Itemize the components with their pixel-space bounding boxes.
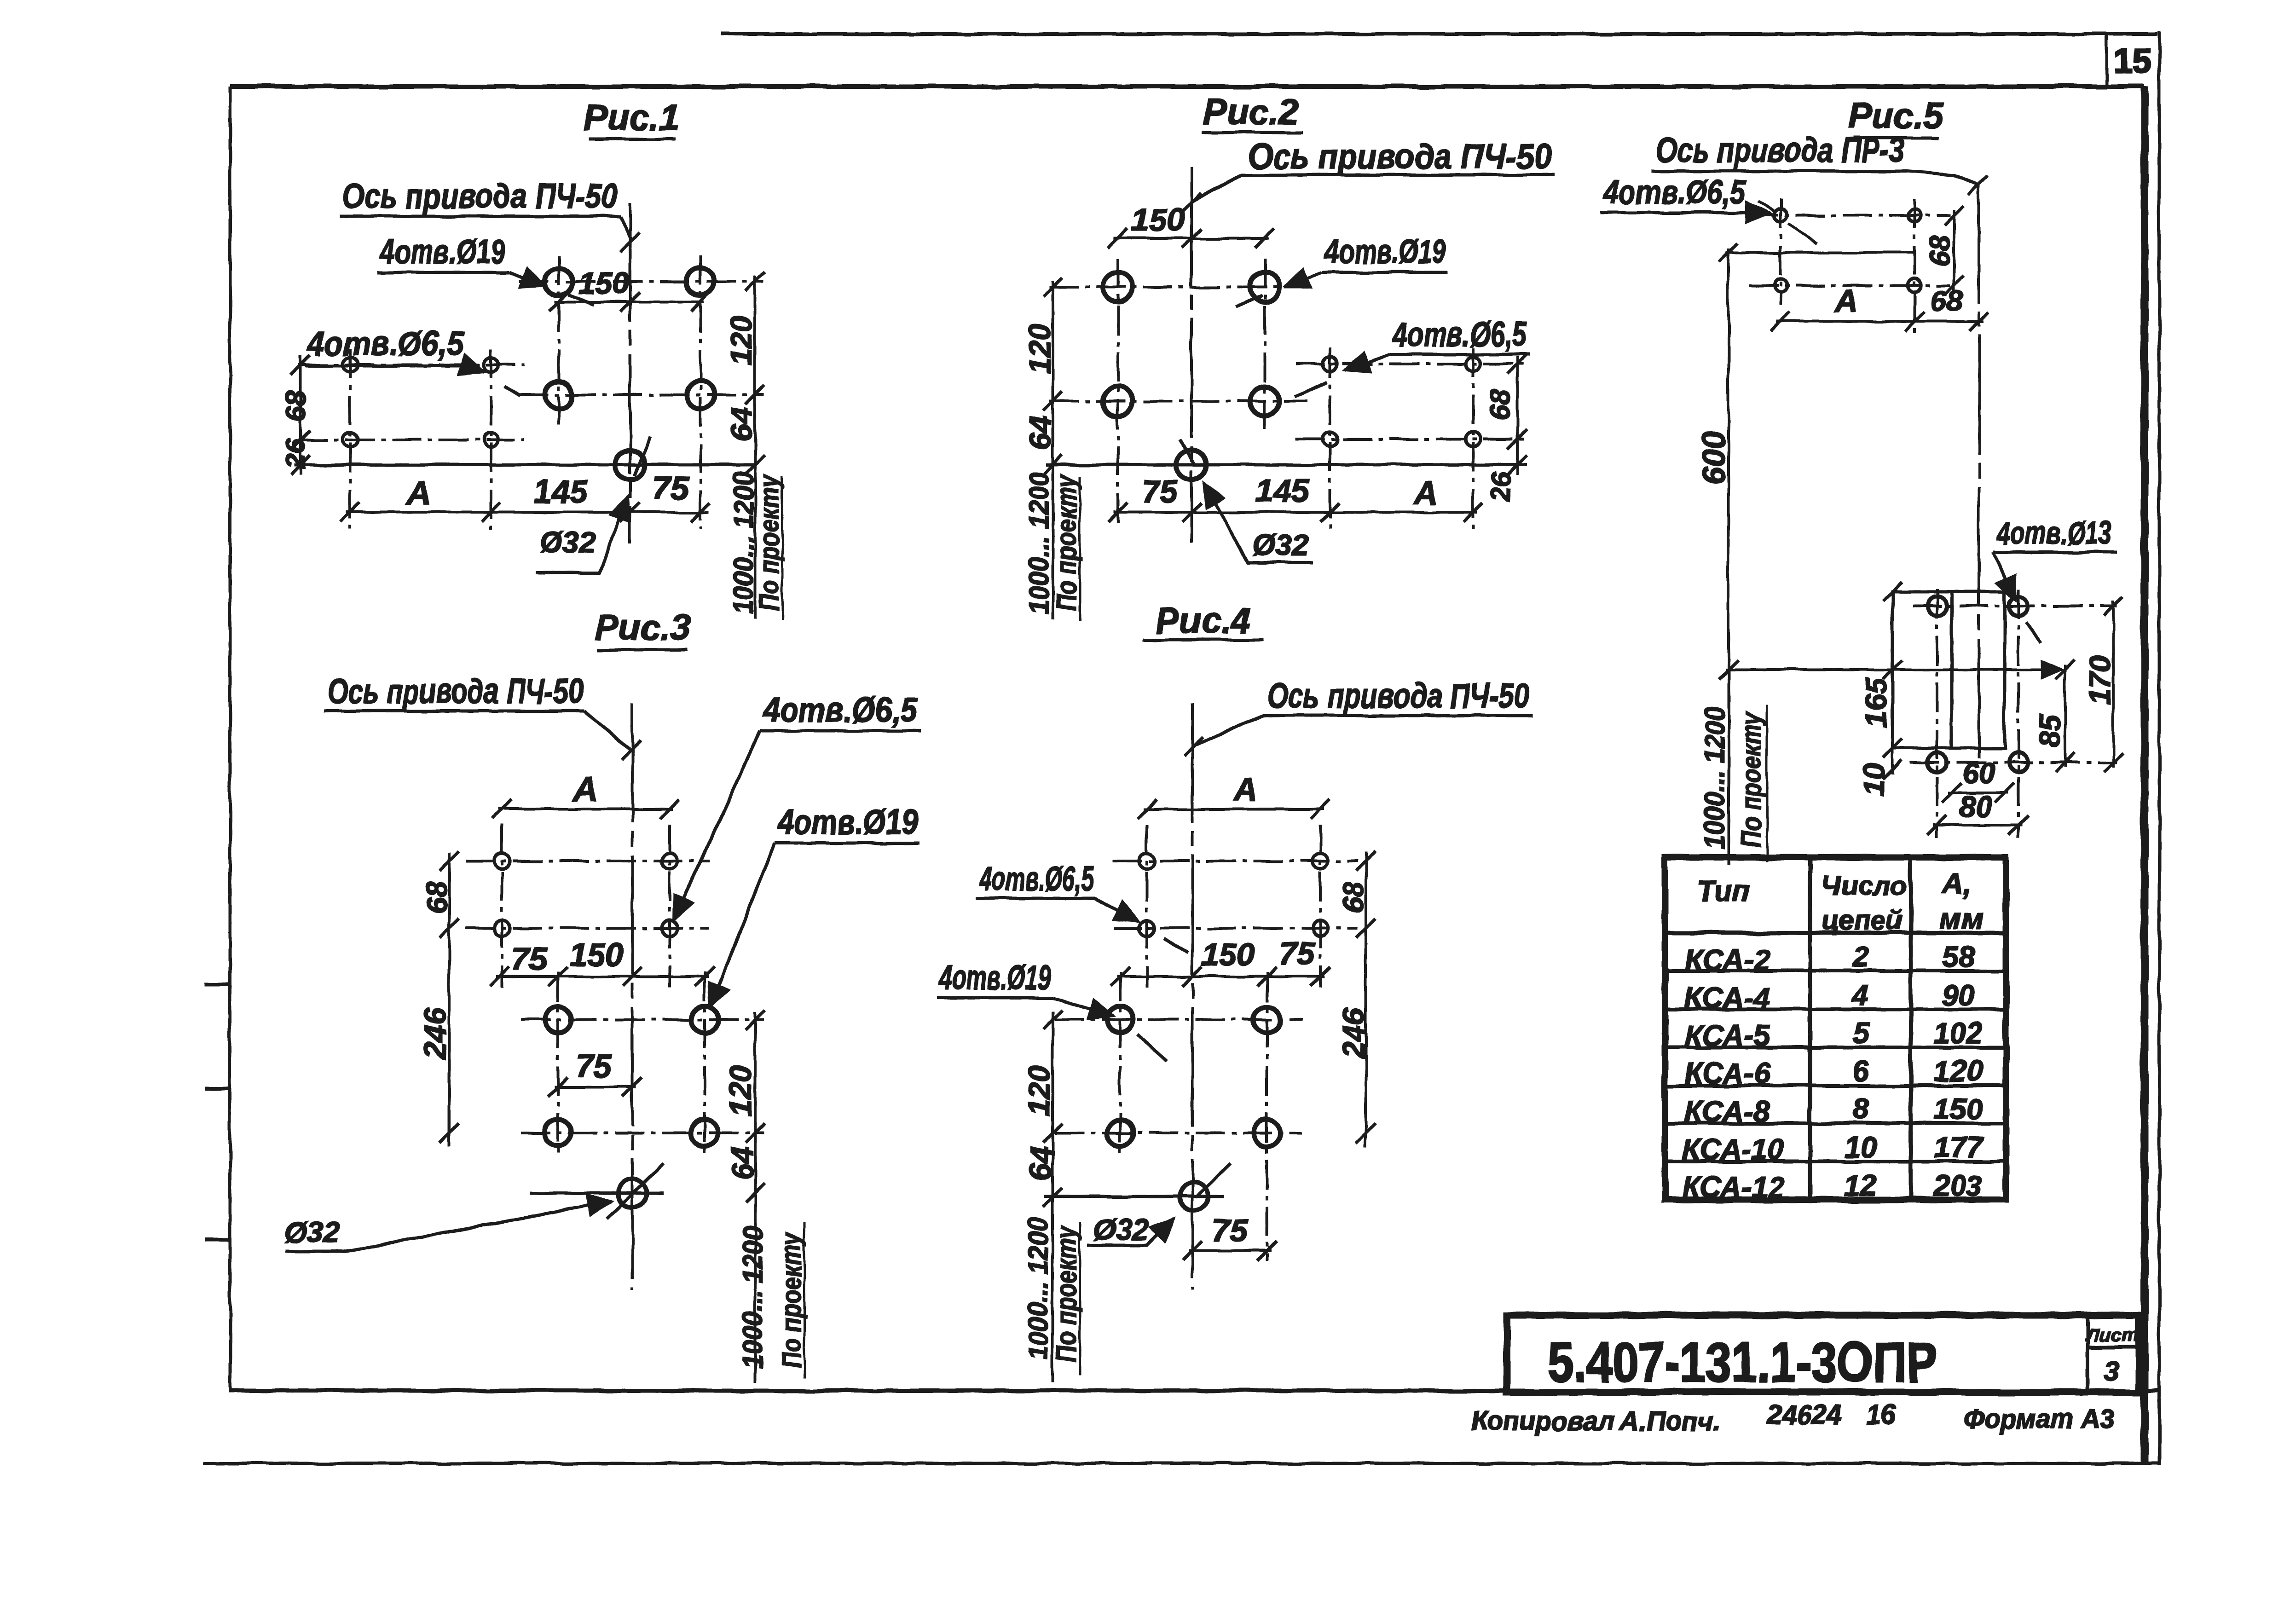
svg-text:По проекту: По проекту	[1051, 1225, 1082, 1362]
svg-text:246: 246	[1336, 1007, 1371, 1059]
svg-text:4отв.Ø6,5: 4отв.Ø6,5	[1602, 174, 1746, 211]
svg-text:Копировал: Копировал	[1471, 1406, 1615, 1436]
svg-text:Ø32: Ø32	[284, 1216, 340, 1249]
svg-text:203: 203	[1933, 1169, 1983, 1202]
svg-text:КСА-12: КСА-12	[1682, 1171, 1784, 1204]
svg-text:150: 150	[1934, 1092, 1983, 1126]
svg-text:КСА-5: КСА-5	[1684, 1019, 1771, 1052]
svg-text:Рис.3: Рис.3	[595, 607, 690, 647]
svg-text:1000... 1200: 1000... 1200	[1023, 1217, 1053, 1360]
svg-text:68: 68	[1924, 235, 1956, 266]
svg-text:Ось привода ПЧ-50: Ось привода ПЧ-50	[341, 177, 618, 216]
svg-text:Рис.1: Рис.1	[584, 97, 679, 138]
svg-text:Рис.2: Рис.2	[1203, 92, 1299, 132]
svg-text:А: А	[572, 771, 597, 808]
svg-text:6: 6	[1852, 1054, 1869, 1087]
svg-text:А: А	[406, 474, 431, 511]
svg-text:102: 102	[1934, 1017, 1983, 1050]
svg-text:75: 75	[1142, 474, 1178, 509]
svg-text:4отв.Ø6,5: 4отв.Ø6,5	[1392, 315, 1527, 353]
svg-text:15: 15	[2114, 42, 2151, 80]
svg-text:5: 5	[1852, 1017, 1869, 1050]
svg-text:68: 68	[1484, 389, 1516, 421]
svg-text:12: 12	[1844, 1169, 1877, 1202]
svg-text:120: 120	[724, 315, 758, 366]
svg-text:А.Попч.: А.Попч.	[1619, 1406, 1722, 1436]
svg-text:75: 75	[653, 470, 689, 506]
svg-text:Ось привода ПЧ-50: Ось привода ПЧ-50	[1248, 137, 1552, 176]
svg-text:68: 68	[421, 881, 453, 913]
svg-text:68: 68	[1338, 881, 1370, 913]
svg-text:8: 8	[1852, 1092, 1869, 1126]
svg-text:150: 150	[1201, 936, 1255, 972]
svg-text:170: 170	[2083, 656, 2117, 705]
svg-text:А,: А,	[1941, 867, 1972, 900]
svg-text:246: 246	[418, 1007, 452, 1059]
svg-text:1000... 1200: 1000... 1200	[737, 1226, 768, 1369]
svg-text:16: 16	[1866, 1400, 1896, 1430]
svg-text:Рис.4: Рис.4	[1155, 600, 1251, 641]
svg-text:По проекту: По проекту	[776, 1231, 807, 1368]
svg-text:2: 2	[1852, 940, 1869, 973]
svg-text:120: 120	[723, 1065, 758, 1116]
svg-text:600: 600	[1696, 431, 1732, 485]
svg-text:145: 145	[1255, 473, 1310, 509]
svg-text:4отв.Ø19: 4отв.Ø19	[380, 232, 505, 271]
svg-text:24624: 24624	[1767, 1400, 1841, 1430]
svg-text:5.407-131.1-3ОПР: 5.407-131.1-3ОПР	[1548, 1331, 1937, 1393]
svg-text:4отв.Ø13: 4отв.Ø13	[1997, 515, 2112, 551]
svg-text:Ось привода ПР-3: Ось привода ПР-3	[1656, 131, 1904, 170]
svg-text:4: 4	[1851, 978, 1869, 1011]
svg-text:КСА-4: КСА-4	[1684, 981, 1770, 1014]
svg-text:150: 150	[1131, 202, 1185, 238]
svg-text:4отв.Ø19: 4отв.Ø19	[939, 959, 1051, 997]
svg-text:4отв.Ø6,5: 4отв.Ø6,5	[762, 691, 918, 729]
svg-text:КСА-6: КСА-6	[1684, 1057, 1770, 1090]
svg-text:64: 64	[1023, 416, 1057, 450]
svg-text:64: 64	[1024, 1146, 1058, 1180]
svg-text:177: 177	[1934, 1131, 1984, 1164]
svg-text:4отв.Ø19: 4отв.Ø19	[777, 803, 918, 841]
svg-text:75: 75	[1212, 1213, 1248, 1248]
svg-text:90: 90	[1942, 978, 1974, 1011]
svg-text:Ось привода ПЧ-50: Ось привода ПЧ-50	[328, 672, 583, 711]
svg-text:4отв.Ø19: 4отв.Ø19	[1324, 232, 1446, 271]
svg-text:64: 64	[725, 1146, 759, 1180]
svg-text:По проекту: По проекту	[1051, 474, 1082, 611]
svg-text:80: 80	[1959, 790, 1992, 823]
svg-text:Ø32: Ø32	[540, 526, 596, 559]
svg-text:145: 145	[534, 474, 588, 509]
svg-text:10: 10	[1844, 1131, 1877, 1164]
svg-text:Ø32: Ø32	[1253, 528, 1308, 561]
svg-text:150: 150	[578, 266, 629, 300]
svg-text:120: 120	[1022, 1065, 1056, 1116]
svg-text:4отв.Ø6,5: 4отв.Ø6,5	[979, 860, 1094, 898]
svg-text:120: 120	[1023, 324, 1057, 374]
svg-text:А: А	[1834, 283, 1858, 319]
svg-text:цепей: цепей	[1822, 905, 1903, 936]
svg-text:По проекту: По проекту	[1736, 711, 1767, 847]
svg-text:Ø32: Ø32	[1093, 1213, 1149, 1246]
svg-text:26: 26	[281, 439, 311, 469]
svg-text:120: 120	[1934, 1054, 1983, 1087]
svg-text:26: 26	[1486, 472, 1516, 502]
svg-text:75: 75	[1279, 936, 1315, 971]
svg-text:1000... 1200: 1000... 1200	[1699, 706, 1730, 849]
svg-text:Формат А3: Формат А3	[1964, 1404, 2114, 1434]
svg-text:165: 165	[1859, 677, 1892, 727]
svg-text:Число: Число	[1822, 870, 1907, 901]
svg-text:мм: мм	[1940, 902, 1984, 935]
svg-text:КСА-8: КСА-8	[1684, 1095, 1770, 1128]
svg-text:Лист: Лист	[2084, 1324, 2139, 1346]
svg-text:Тип: Тип	[1697, 874, 1750, 907]
svg-text:85: 85	[2033, 714, 2066, 747]
svg-text:75: 75	[511, 941, 548, 977]
svg-text:75: 75	[576, 1048, 612, 1084]
svg-text:150: 150	[570, 936, 624, 972]
svg-text:А: А	[1232, 771, 1257, 808]
svg-text:Ось привода ПЧ-50: Ось привода ПЧ-50	[1266, 676, 1529, 716]
svg-text:По проекту: По проекту	[754, 474, 785, 611]
svg-text:68: 68	[280, 390, 312, 422]
svg-text:А: А	[1413, 474, 1438, 511]
svg-text:64: 64	[724, 407, 758, 441]
svg-text:КСА-10: КСА-10	[1682, 1133, 1784, 1166]
svg-text:58: 58	[1942, 940, 1975, 973]
svg-text:3: 3	[2104, 1356, 2119, 1387]
svg-text:68: 68	[1930, 284, 1963, 318]
svg-text:Рис.5: Рис.5	[1848, 95, 1944, 136]
svg-text:КСА-2: КСА-2	[1684, 943, 1770, 977]
svg-text:60: 60	[1962, 757, 1995, 790]
svg-text:1000... 1200: 1000... 1200	[1024, 472, 1054, 614]
svg-text:10: 10	[1857, 763, 1891, 796]
svg-text:4отв.Ø6,5: 4отв.Ø6,5	[306, 324, 464, 363]
